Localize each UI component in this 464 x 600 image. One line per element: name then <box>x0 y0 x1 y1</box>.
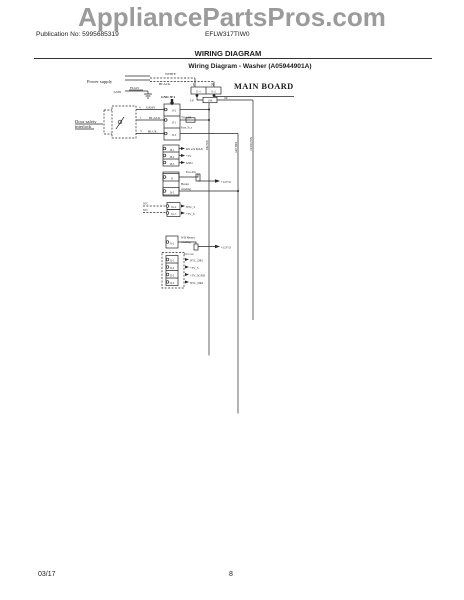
svg-text:NTC: NTC <box>143 209 148 212</box>
svg-text:10A: 10A <box>208 100 213 103</box>
signal +5V_SGND <box>185 273 189 276</box>
svg-text:Power supply: Power supply <box>87 79 113 84</box>
connector J2 NTC dashed <box>162 253 184 289</box>
svg-text:J5-2: J5-2 <box>172 110 177 113</box>
svg-text:BLACK: BLACK <box>149 116 161 120</box>
svg-text:BLUE: BLUE <box>148 130 157 134</box>
svg-text:Fuse_7k_s: Fuse_7k_s <box>181 127 192 130</box>
svg-text:J3-2: J3-2 <box>170 192 175 195</box>
svg-text:J1-2: J1-2 <box>211 90 216 93</box>
svg-text:J1-1: J1-1 <box>196 90 201 93</box>
svg-text:J2-1: J2-1 <box>170 260 175 263</box>
pin J11-4 NTC_S <box>143 205 166 207</box>
svg-text:J2-3: J2-3 <box>170 275 175 278</box>
svg-text:MAIN BOARD: MAIN BOARD <box>234 82 294 91</box>
wire BLACK door to J5-1 <box>136 119 164 121</box>
svg-text:WHITE: WHITE <box>165 72 176 76</box>
junction L <box>196 94 199 97</box>
svg-text:J2-4: J2-4 <box>170 282 175 285</box>
svg-text:interlock: interlock <box>75 124 92 129</box>
svg-text:GND JE1: GND JE1 <box>161 95 175 99</box>
svg-text:+12V D: +12V D <box>221 246 232 250</box>
svg-text:Wiring Diagram - Washer (A0594: Wiring Diagram - Washer (A05944901A) <box>188 63 311 70</box>
svg-text:J11-4: J11-4 <box>171 206 177 209</box>
svg-text:8: 8 <box>229 571 233 578</box>
svg-text:1: 1 <box>140 116 142 120</box>
wire J5-3 blue to bus <box>180 133 238 135</box>
signal +5V J8 <box>179 155 181 157</box>
svg-text:Heater: Heater <box>181 182 189 186</box>
wire J3-2 to bus <box>179 190 238 192</box>
wire BLUE door to J5-3 <box>136 133 164 135</box>
svg-text:winding: winding <box>181 187 191 191</box>
svg-text:J1-2: J1-2 <box>170 243 175 246</box>
ground earth symbol <box>144 91 152 98</box>
svg-text:J3: J3 <box>171 178 174 181</box>
svg-text:J5-3: J5-3 <box>172 134 177 137</box>
svg-text:LF: LF <box>190 99 194 103</box>
bus BROWN vertical <box>208 103 210 356</box>
svg-text:N: N <box>211 82 214 87</box>
connector J1-2 WD heater <box>166 236 178 248</box>
svg-text:AppliancePartsPros.com: AppliancePartsPros.com <box>78 2 386 32</box>
fuse 7N6A on J5-1 wire <box>180 119 186 121</box>
bus vertical x253 <box>252 100 254 320</box>
svg-text:OR BROWN: OR BROWN <box>250 137 253 151</box>
svg-text:J11-5: J11-5 <box>171 213 177 216</box>
wire +12V D (2) <box>198 246 215 248</box>
svg-text:J8-2: J8-2 <box>170 156 175 159</box>
svg-text:GND: GND <box>114 90 122 94</box>
wire J5-1 to brown bus <box>195 119 209 121</box>
svg-text:OR: OR <box>224 97 228 100</box>
svg-text:J8-3: J8-3 <box>170 163 175 166</box>
svg-text:J8-1: J8-1 <box>170 149 175 152</box>
svg-text:4: 4 <box>139 106 141 110</box>
svg-text:03/17: 03/17 <box>38 571 56 578</box>
svg-text:J2-2: J2-2 <box>170 267 175 270</box>
svg-text:Publication No: 5995685319: Publication No: 5995685319 <box>36 31 119 38</box>
svg-text:EFLW317TIW0: EFLW317TIW0 <box>205 31 250 38</box>
svg-text:NTC: NTC <box>143 203 148 206</box>
connector J5 <box>164 104 180 140</box>
svg-text:WIRING DIAGRAM: WIRING DIAGRAM <box>195 49 262 58</box>
svg-text:J5-1: J5-1 <box>172 122 177 125</box>
wire GND from power supply <box>125 90 148 92</box>
svg-text:WD Heater: WD Heater <box>181 236 195 240</box>
svg-text:NTC_DR2: NTC_DR2 <box>190 281 204 285</box>
svg-text:FLGN: FLGN <box>130 86 139 90</box>
svg-text:+5V_SGND: +5V_SGND <box>190 274 206 278</box>
svg-text:GND: GND <box>186 161 193 165</box>
door interlock switch box <box>112 106 136 138</box>
fuse EL3-1 <box>178 242 196 244</box>
wire GRAY door to J5-2 <box>136 109 164 111</box>
heading rule <box>34 57 432 60</box>
svg-text:EL3-1 ea: EL3-1 ea <box>184 253 194 256</box>
wire J5-2 gray to brown bus <box>180 109 209 111</box>
svg-text:GRY BRN: GRY BRN <box>235 142 238 153</box>
connector J1 line input <box>191 87 221 94</box>
signal GND J8 <box>179 162 181 164</box>
connector J3 heater <box>163 172 179 196</box>
signal +5V_S <box>185 266 189 269</box>
svg-text:GRAY: GRAY <box>146 106 156 110</box>
svg-text:NTC_S: NTC_S <box>186 205 196 209</box>
wire +12V D (1) <box>198 180 215 182</box>
pin J11-5 +5V_S <box>143 212 166 214</box>
wire OR from fuse to bus <box>217 99 253 101</box>
wire N from power supply <box>125 79 150 81</box>
signal NTC_DR2 <box>185 281 189 284</box>
svg-text:3: 3 <box>140 129 142 133</box>
svg-text:+12V D: +12V D <box>221 180 232 184</box>
svg-text:BROWN: BROWN <box>206 140 209 150</box>
wire N to main board right column <box>214 96 294 97</box>
svg-text:+5V_S: +5V_S <box>186 212 195 216</box>
svg-text:BLACK: BLACK <box>159 82 171 86</box>
connector J8 <box>163 145 179 166</box>
bus vertical x238 <box>237 134 239 414</box>
svg-text:NTC_DR1: NTC_DR1 <box>190 259 204 263</box>
wire L from power supply <box>125 75 150 77</box>
svg-text:RX ack MAX: RX ack MAX <box>186 147 204 151</box>
svg-text:EL4-10A: EL4-10A <box>186 171 196 174</box>
junction N <box>213 94 216 97</box>
signal NTC_DR1 <box>185 258 189 261</box>
signal RX ack MAX <box>179 148 181 150</box>
svg-text:+5V_S: +5V_S <box>190 266 199 270</box>
svg-text:L: L <box>193 82 196 87</box>
svg-text:+5V: +5V <box>186 154 192 158</box>
